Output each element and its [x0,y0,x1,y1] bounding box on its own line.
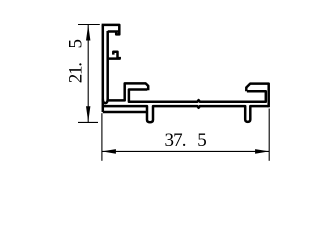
svg-text:5: 5 [197,130,207,151]
svg-text:5: 5 [66,39,87,49]
svg-text:37.: 37. [165,130,186,151]
svg-text:21.: 21. [66,63,87,83]
